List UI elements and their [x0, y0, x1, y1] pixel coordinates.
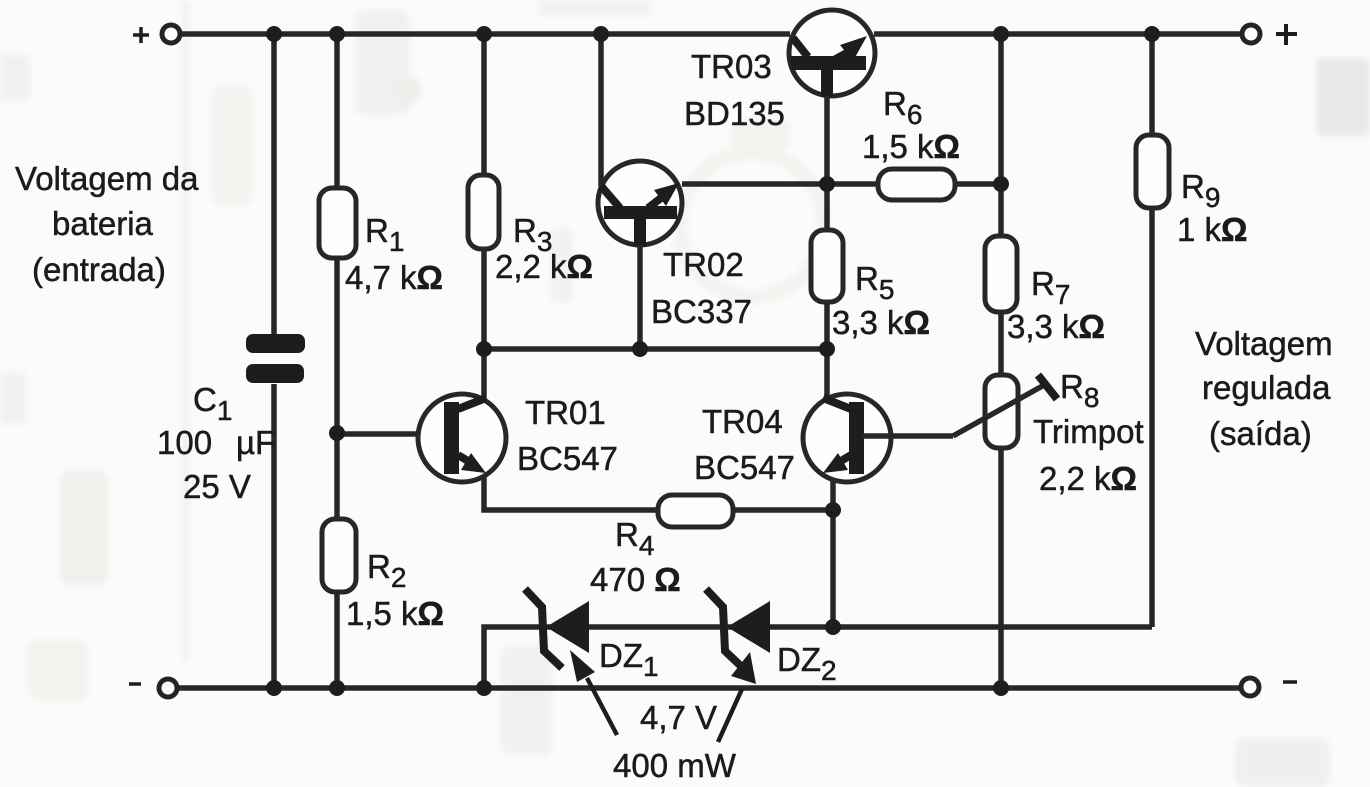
svg-text:R5: R5 — [855, 260, 894, 305]
junction TR01 base node — [329, 425, 345, 441]
svg-text:Voltagem: Voltagem — [1195, 325, 1333, 362]
junction DZ2 anode node — [825, 619, 841, 635]
wire R1 branch — [334, 34, 340, 688]
svg-text:BC547: BC547 — [517, 440, 618, 477]
svg-text:R1: R1 — [365, 212, 404, 257]
svg-text:bateria: bateria — [52, 205, 154, 242]
svg-text:1 kΩ: 1 kΩ — [1177, 211, 1248, 248]
svg-text:R4: R4 — [615, 516, 654, 561]
junction top rail R3 — [476, 26, 492, 42]
zener diode DZ1 — [525, 589, 589, 668]
resistor R9 — [1136, 135, 1169, 208]
wire TR04 base to trimpot wiper — [862, 433, 953, 439]
wire TR01 emitter to R4 — [484, 477, 833, 510]
label - input — [129, 682, 141, 686]
junction bottom rail R2 — [329, 680, 345, 696]
label + output — [1276, 24, 1297, 45]
svg-text:3,3 kΩ: 3,3 kΩ — [832, 304, 930, 341]
svg-text:R7: R7 — [1031, 265, 1070, 310]
terminal - input — [159, 679, 177, 697]
trimpot R8 — [985, 375, 1018, 448]
svg-text:BC337: BC337 — [651, 293, 752, 330]
svg-text:R8: R8 — [1060, 368, 1099, 413]
wire R3 branch — [481, 34, 487, 399]
svg-text:1,5 kΩ: 1,5 kΩ — [346, 595, 444, 632]
junction node R3 bottom — [476, 341, 492, 357]
junction top rail TR02 collector — [593, 26, 609, 42]
svg-text:(saída): (saída) — [1209, 415, 1312, 452]
svg-text:R2: R2 — [367, 548, 406, 593]
junction TR03 base node — [819, 176, 835, 192]
wire TR02 emitter down — [637, 245, 643, 349]
terminal - output — [1241, 678, 1259, 696]
svg-text:BD135: BD135 — [684, 95, 785, 132]
svg-text:TR01: TR01 — [525, 394, 606, 431]
wire zener rail y627 — [484, 627, 1152, 688]
svg-text:DZ1: DZ1 — [599, 637, 659, 682]
resistor R6 — [878, 169, 955, 200]
junction node TR02 base — [632, 341, 648, 357]
svg-text:2,2 kΩ: 2,2 kΩ — [1039, 460, 1137, 497]
capacitor C1 — [246, 334, 305, 383]
wire top rail — [181, 31, 1243, 37]
junction top rail R1 — [329, 26, 345, 42]
resistor R7 — [985, 236, 1017, 312]
resistor R1 — [319, 188, 356, 258]
annotation arrow to DZ2 — [718, 652, 756, 742]
resistor R5 — [811, 230, 843, 302]
resistor R3 — [468, 175, 499, 249]
svg-text:regulada: regulada — [1202, 369, 1331, 406]
transistor TR01 — [418, 394, 506, 482]
wire TR01 base — [337, 431, 446, 437]
svg-text:Trimpot: Trimpot — [1033, 413, 1144, 450]
junction bottom rail C1 — [266, 680, 282, 696]
svg-text:DZ2: DZ2 — [777, 641, 837, 686]
junction bottom rail R8 branch — [993, 680, 1009, 696]
wire TR02 emitter to TR03 base rail y184 — [682, 181, 1001, 187]
junction R6 right node — [993, 176, 1009, 192]
wire TR02 collector branch — [598, 34, 604, 186]
wire TR04 emitter down — [830, 478, 836, 627]
junction node R5 bottom — [819, 341, 835, 357]
wire R5 to node — [824, 302, 830, 399]
wire C1 branch — [271, 34, 277, 688]
junction bottom rail DZ branch — [476, 680, 492, 696]
resistor R2 — [322, 519, 356, 592]
svg-text:4,7 kΩ: 4,7 kΩ — [345, 259, 443, 296]
terminal + input — [162, 25, 180, 43]
wire TR03 base down — [824, 96, 830, 230]
label + input — [133, 27, 149, 43]
svg-text:(entrada): (entrada) — [32, 251, 166, 288]
svg-text:1,5 kΩ: 1,5 kΩ — [862, 128, 960, 165]
svg-text:TR02: TR02 — [663, 246, 744, 283]
svg-text:BC547: BC547 — [694, 449, 795, 486]
svg-text:R9: R9 — [1181, 168, 1220, 213]
transistor TR03 — [789, 10, 875, 97]
annotation arrow to DZ1 — [570, 650, 617, 735]
svg-text:25 V: 25 V — [183, 468, 251, 505]
svg-text:R6: R6 — [883, 85, 922, 130]
svg-text:TR03: TR03 — [691, 48, 772, 85]
label - output — [1283, 680, 1297, 684]
wire bottom rail — [177, 685, 1242, 691]
svg-text:3,3 kΩ: 3,3 kΩ — [1007, 308, 1105, 345]
junction top rail C1 — [266, 26, 282, 42]
zener diode DZ2 — [706, 589, 770, 668]
wire R7 R8 branch — [998, 34, 1004, 688]
transistor TR02 — [598, 161, 682, 247]
svg-text:100: 100 — [157, 424, 212, 461]
svg-text:4,7 V: 4,7 V — [640, 699, 717, 736]
trimpot R8 wiper arrow — [953, 384, 1046, 436]
junction R4 right node — [825, 502, 841, 518]
svg-text:Voltagem da: Voltagem da — [15, 160, 199, 197]
svg-text:2,2 kΩ: 2,2 kΩ — [495, 248, 593, 285]
resistor R4 — [658, 495, 733, 527]
wire mid horizontal y349 — [484, 346, 827, 352]
wire R9 branch — [1149, 34, 1155, 627]
svg-text:TR04: TR04 — [702, 403, 783, 440]
svg-text:µF: µF — [236, 424, 275, 461]
svg-text:400 mW: 400 mW — [613, 747, 737, 784]
svg-text:470 Ω: 470 Ω — [590, 561, 681, 598]
terminal + output — [1242, 25, 1260, 43]
junction top rail R9 — [1144, 26, 1160, 42]
transistor TR04 — [803, 394, 891, 482]
junction top rail R7 — [993, 26, 1009, 42]
svg-text:C1: C1 — [193, 381, 232, 426]
